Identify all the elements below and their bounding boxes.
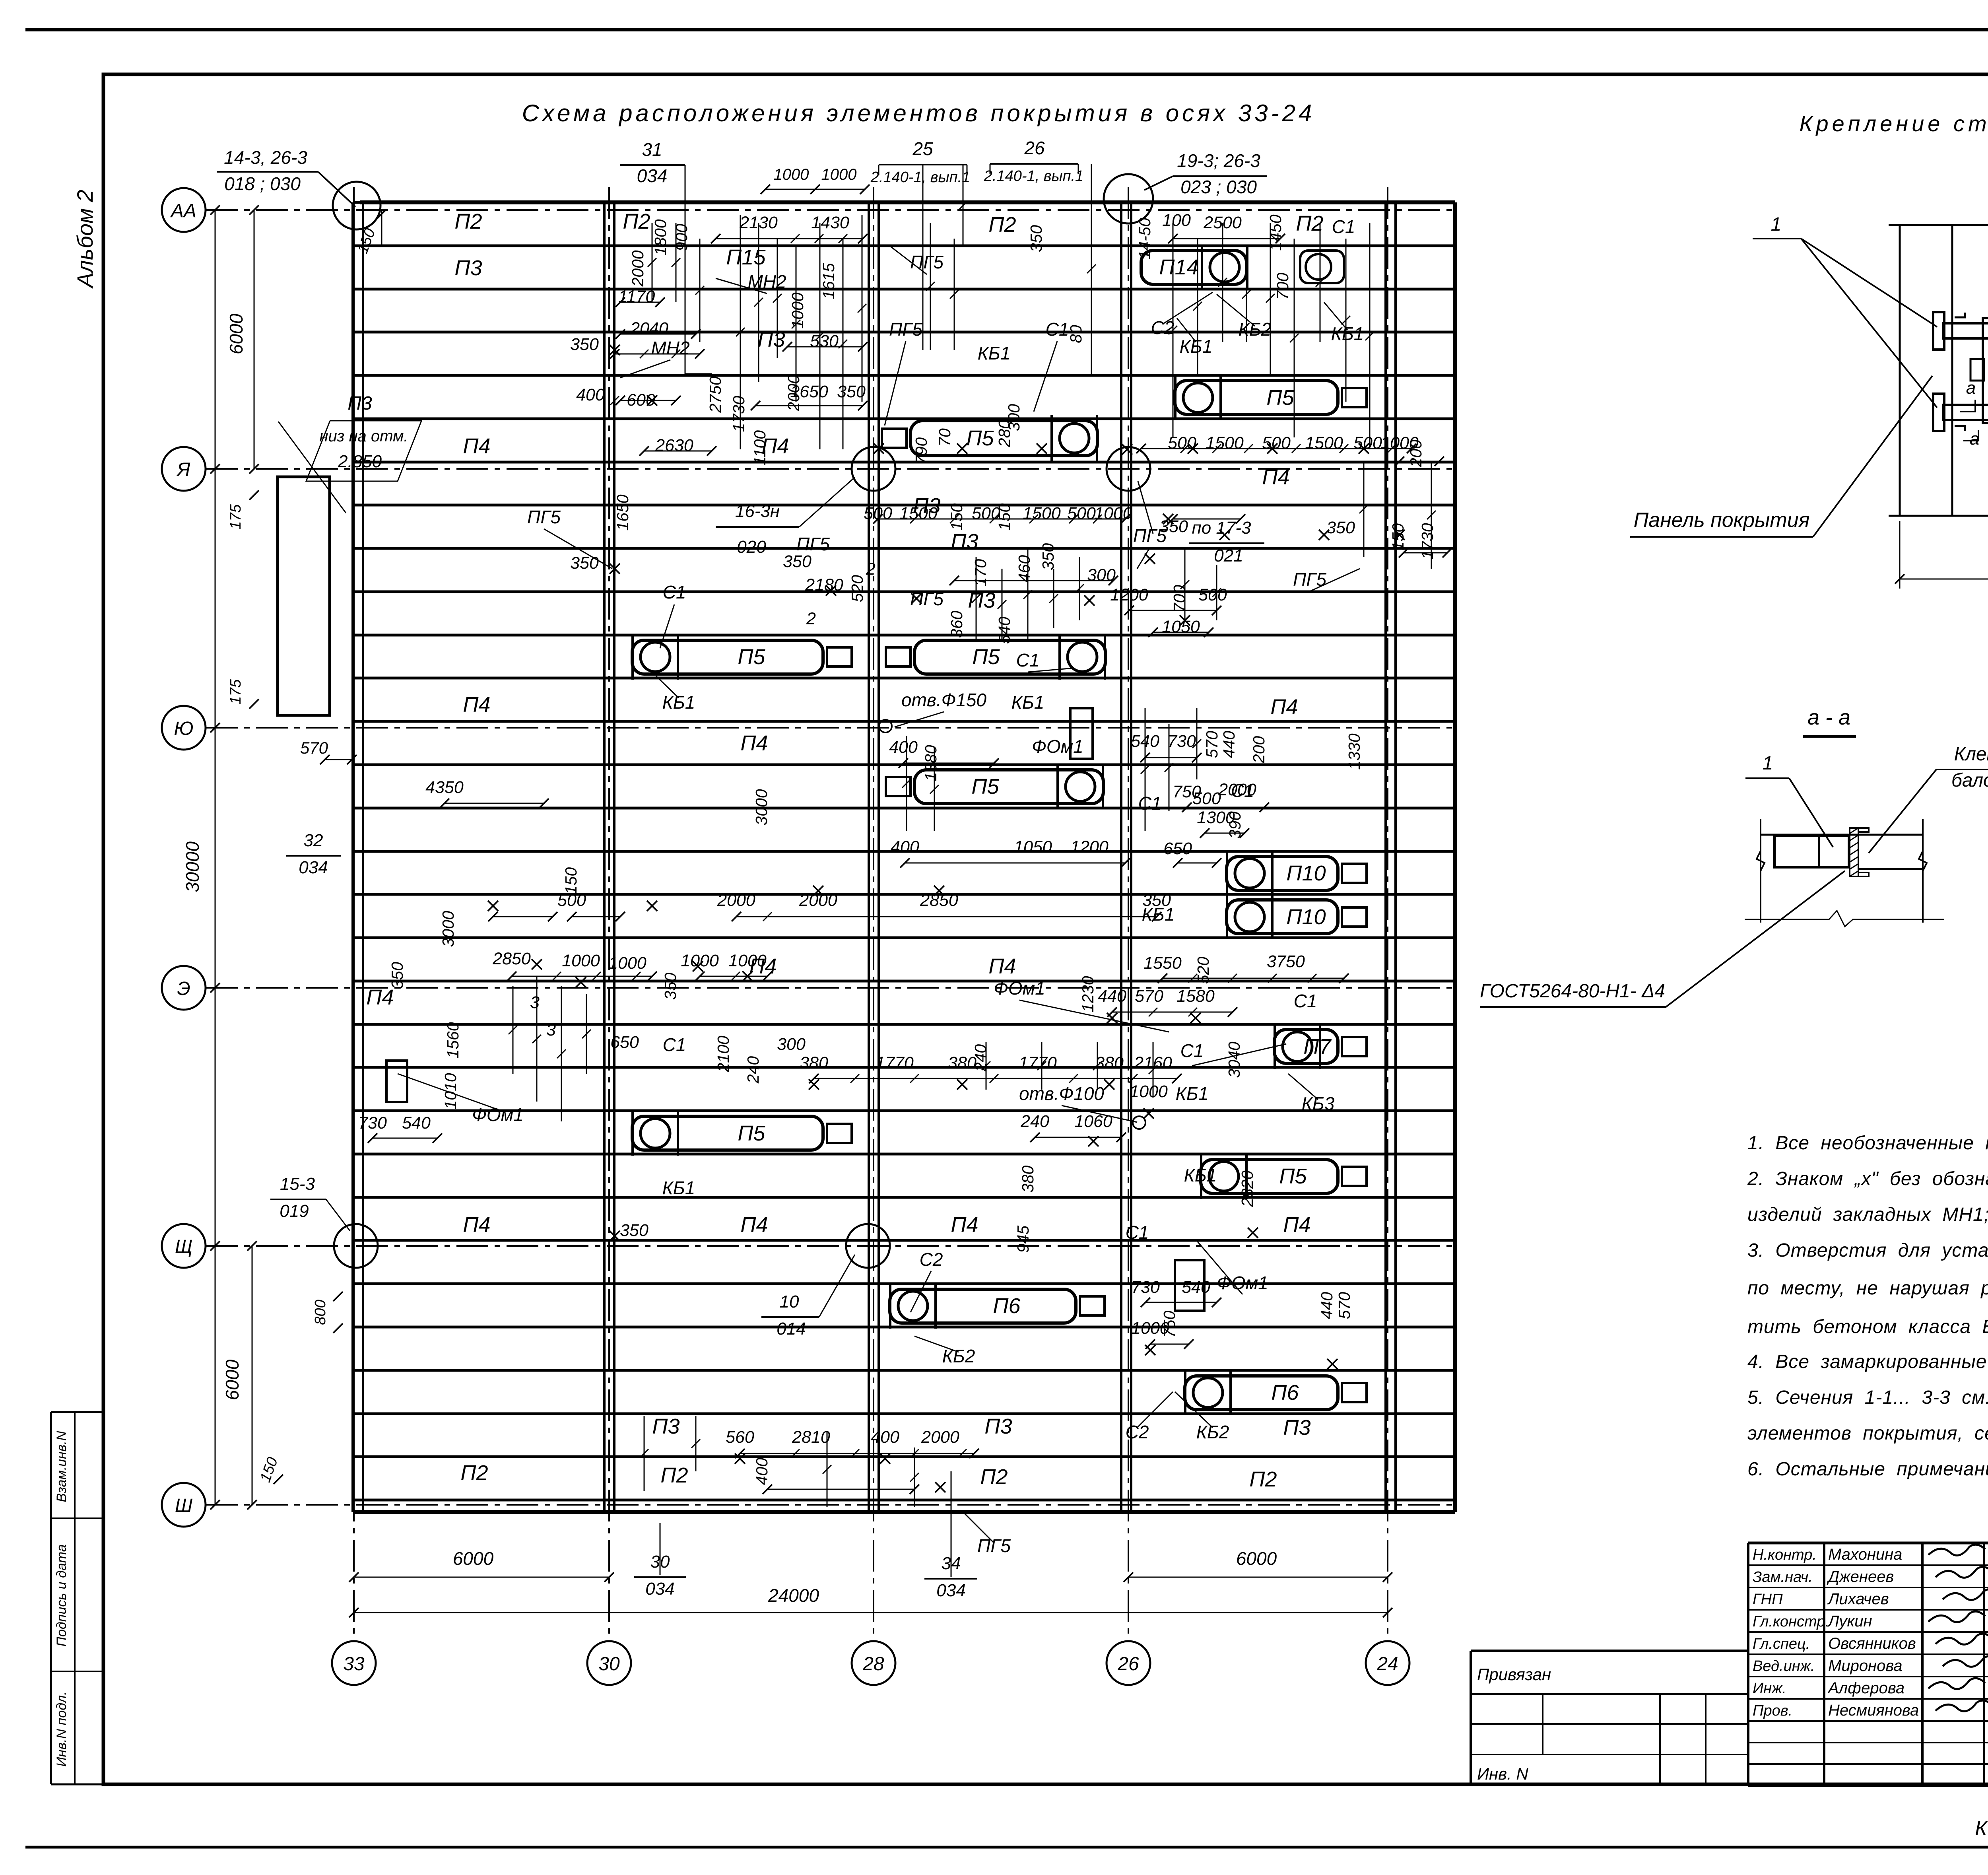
svg-text:Лукин: Лукин — [1827, 1613, 1872, 1630]
svg-text:Копировал Кухтинова: Копировал Кухтинова — [1975, 1817, 1988, 1840]
dim 1490 — [1899, 521, 1901, 589]
svg-text:Овсянников: Овсянников — [1828, 1635, 1916, 1652]
node circle at Я-28 — [852, 447, 895, 491]
svg-text:400: 400 — [891, 837, 919, 857]
bottom dim line 6000+6000 — [354, 1577, 609, 1578]
svg-text:отв.Ф100: отв.Ф100 — [1019, 1083, 1104, 1104]
panel П10 with cup — [1227, 857, 1338, 890]
svg-text:Крепление стакана к плите: Крепление стакана к плите покрытия — [1799, 111, 1988, 136]
panel П5 with cup — [914, 640, 1105, 674]
svg-text:1800: 1800 — [651, 219, 670, 255]
С1 cup rect at П14 row — [1300, 251, 1344, 283]
svg-text:1730: 1730 — [730, 396, 748, 432]
detail bottom edge with break — [1889, 505, 1988, 525]
left dimension line 30000 — [215, 210, 216, 1505]
svg-text:1450: 1450 — [1266, 214, 1285, 251]
svg-text:500: 500 — [1192, 789, 1221, 808]
svg-text:400: 400 — [753, 1458, 771, 1485]
svg-text:П4: П4 — [740, 731, 768, 755]
svg-text:Инв.N подл.: Инв.N подл. — [54, 1691, 69, 1766]
marker leader lines — [660, 604, 674, 648]
svg-text:28: 28 — [862, 1653, 884, 1675]
svg-text:730: 730 — [1167, 732, 1196, 751]
svg-text:1500: 1500 — [1206, 433, 1244, 453]
svg-text:П4: П4 — [463, 1213, 490, 1237]
column strip at axis 26 — [1120, 202, 1122, 1512]
svg-text:500: 500 — [1067, 504, 1096, 523]
svg-text:350: 350 — [661, 973, 679, 1000]
svg-text:2100: 2100 — [714, 1036, 732, 1072]
left attribute table — [51, 1411, 103, 1413]
svg-text:1560: 1560 — [444, 1022, 462, 1058]
svg-text:Клетка: Клетка — [1954, 744, 1988, 765]
svg-text:по месту, не нарушая ребер: по месту, не нарушая ребер плит и после … — [1747, 1278, 1988, 1299]
svg-text:350: 350 — [388, 962, 406, 989]
svg-text:023 ; 030: 023 ; 030 — [1180, 177, 1257, 197]
svg-text:П5: П5 — [1279, 1164, 1307, 1188]
svg-text:70: 70 — [936, 428, 954, 447]
svg-text:Несмиянова: Несмиянова — [1828, 1702, 1919, 1719]
svg-text:П5: П5 — [738, 645, 765, 669]
svg-text:ПГ5: ПГ5 — [910, 252, 944, 272]
svg-text:П3: П3 — [454, 256, 482, 280]
dim 150 top-left — [381, 210, 382, 247]
svg-text:2. Знаком „х" без обозначения: 2. Знаком „х" без обозначения на схемах … — [1747, 1168, 1988, 1189]
panel П5 with cup — [632, 1116, 823, 1150]
svg-text:1500: 1500 — [899, 504, 938, 523]
svg-text:низ на отм.: низ на отм. — [320, 427, 408, 445]
svg-text:2.850: 2.850 — [338, 452, 382, 471]
svg-text:650: 650 — [1163, 839, 1192, 858]
svg-text:1430: 1430 — [811, 213, 849, 232]
corner angle marks — [1955, 313, 1965, 317]
svg-text:500: 500 — [1198, 585, 1227, 604]
svg-text:КБ1: КБ1 — [1176, 1083, 1209, 1104]
panel П6 with cup — [1185, 1376, 1338, 1410]
svg-text:021: 021 — [1214, 546, 1243, 565]
svg-text:1000: 1000 — [774, 166, 809, 183]
svg-text:2180: 2180 — [805, 575, 843, 595]
svg-text:2850: 2850 — [492, 949, 531, 968]
svg-text:П10: П10 — [1286, 905, 1326, 929]
svg-text:018 ; 030: 018 ; 030 — [224, 173, 301, 194]
svg-text:034: 034 — [637, 165, 668, 186]
svg-text:П15: П15 — [726, 245, 766, 269]
bottom dim line 24000 — [354, 1612, 1388, 1613]
svg-text:2: 2 — [806, 609, 816, 628]
svg-text:КБ1: КБ1 — [1011, 692, 1044, 713]
svg-text:380: 380 — [1019, 1166, 1037, 1193]
axis line 24 — [1387, 187, 1388, 1639]
node circle at Я-26 — [1107, 447, 1150, 491]
svg-text:3000: 3000 — [752, 789, 771, 825]
svg-text:350: 350 — [1142, 891, 1171, 910]
svg-text:4350: 4350 — [425, 778, 464, 797]
svg-text:Ш: Ш — [175, 1495, 193, 1516]
svg-text:350: 350 — [570, 554, 599, 573]
svg-text:С1: С1 — [663, 582, 686, 602]
svg-text:540: 540 — [1182, 1278, 1210, 1297]
svg-text:Инж.: Инж. — [1753, 1680, 1786, 1697]
svg-text:2000: 2000 — [717, 891, 755, 910]
svg-text:Н.контр.: Н.контр. — [1753, 1547, 1817, 1563]
svg-text:14-3, 26-3: 14-3, 26-3 — [224, 147, 307, 168]
dim 570 — [325, 759, 352, 760]
left dimension 6000 Щ-Ш — [252, 1246, 253, 1505]
svg-text:350: 350 — [783, 552, 812, 571]
dim 1000 1000 top — [765, 189, 865, 190]
svg-text:400: 400 — [576, 385, 605, 404]
dimension chain lines — [615, 354, 700, 355]
svg-text:1000: 1000 — [821, 166, 857, 183]
svg-text:КБ1: КБ1 — [1180, 336, 1213, 357]
svg-text:ФОм1: ФОм1 — [472, 1104, 523, 1125]
plan top edge thick — [360, 200, 1455, 204]
svg-text:280: 280 — [995, 420, 1013, 448]
svg-text:элементов покрытия, сечение: элементов покрытия, сечение 4-4 и фундам… — [1747, 1423, 1988, 1444]
svg-text:С2: С2 — [1151, 317, 1175, 338]
svg-text:1500: 1500 — [1305, 433, 1343, 453]
section dim line — [1745, 911, 1944, 927]
svg-text:ФОм1: ФОм1 — [994, 978, 1045, 999]
svg-text:700: 700 — [1274, 273, 1292, 300]
axis circle 33 — [332, 1641, 376, 1685]
extra tick marks on chains — [610, 396, 619, 405]
svg-text:500: 500 — [1353, 433, 1382, 453]
svg-text:изделий закладных МН1; знак: изделий закладных МН1; знаком „•" - МН3;… — [1747, 1204, 1988, 1225]
svg-text:750: 750 — [1160, 1311, 1178, 1338]
column strip at axis 30 — [603, 202, 606, 1512]
svg-text:Алферова: Алферова — [1827, 1679, 1905, 1697]
svg-text:Махонина: Махонина — [1828, 1546, 1902, 1563]
panel П5 with cup — [1175, 381, 1338, 414]
svg-text:П4: П4 — [740, 1213, 768, 1237]
svg-text:ГОСТ5264-80-Н1- Δ4: ГОСТ5264-80-Н1- Δ4 — [1480, 981, 1665, 1002]
svg-text:П4: П4 — [1283, 1213, 1310, 1237]
axis line Щ — [206, 1245, 1455, 1247]
svg-text:Вед.инж.: Вед.инж. — [1753, 1658, 1815, 1675]
panel П3 (low at level 2.850) — [278, 477, 330, 715]
svg-text:2040: 2040 — [630, 319, 668, 338]
svg-text:балочная: балочная — [1951, 770, 1988, 791]
svg-text:ПГ5: ПГ5 — [1293, 569, 1326, 590]
svg-text:32: 32 — [304, 831, 323, 850]
svg-text:КБ3: КБ3 — [1302, 1093, 1335, 1114]
svg-text:П2: П2 — [460, 1461, 488, 1485]
svg-text:100: 100 — [1162, 211, 1191, 230]
svg-text:КБ1: КБ1 — [978, 343, 1011, 363]
svg-text:а - а: а - а — [1807, 705, 1850, 729]
svg-text:Гл.спец.: Гл.спец. — [1753, 1636, 1810, 1652]
svg-text:440: 440 — [1318, 1292, 1336, 1319]
svg-text:150: 150 — [562, 867, 580, 895]
vertical straps — [1983, 318, 1988, 423]
svg-text:1000: 1000 — [1094, 504, 1132, 523]
svg-text:2000: 2000 — [629, 250, 647, 287]
svg-text:Панель покрытия: Панель покрытия — [1634, 509, 1810, 532]
svg-text:350: 350 — [1326, 518, 1355, 537]
svg-text:П4: П4 — [988, 954, 1016, 978]
svg-text:730: 730 — [1131, 1278, 1160, 1297]
svg-text:30: 30 — [598, 1653, 620, 1675]
svg-text:3: 3 — [530, 993, 540, 1012]
svg-text:520: 520 — [1194, 957, 1212, 984]
svg-text:6000: 6000 — [226, 313, 247, 354]
svg-text:945: 945 — [1014, 1226, 1032, 1253]
svg-text:С1: С1 — [1332, 216, 1355, 237]
svg-text:26: 26 — [1117, 1653, 1139, 1675]
svg-text:Инв. N: Инв. N — [1477, 1764, 1528, 1783]
svg-text:200: 200 — [1250, 736, 1268, 764]
svg-text:80: 80 — [1067, 325, 1085, 343]
svg-text:тить бетоном класса В15.: тить бетоном класса В15. — [1747, 1316, 1988, 1337]
svg-text:П6: П6 — [1271, 1381, 1299, 1405]
svg-text:отв.Ф150: отв.Ф150 — [901, 690, 986, 710]
svg-text:С1: С1 — [1016, 650, 1040, 670]
svg-text:1100: 1100 — [751, 430, 769, 465]
svg-text:Щ: Щ — [175, 1236, 192, 1257]
svg-text:700: 700 — [1170, 585, 1188, 612]
svg-text:1200: 1200 — [1070, 837, 1109, 857]
svg-text:П3: П3 — [757, 328, 785, 352]
svg-text:19-3; 26-3: 19-3; 26-3 — [1177, 150, 1260, 171]
svg-text:440: 440 — [1098, 987, 1126, 1006]
svg-text:Лихачев: Лихачев — [1827, 1590, 1889, 1608]
svg-text:900: 900 — [672, 224, 691, 251]
svg-text:П10: П10 — [1286, 861, 1326, 885]
svg-text:1770: 1770 — [876, 1053, 914, 1073]
svg-text:П2: П2 — [1296, 212, 1323, 235]
axis line 26 — [1128, 187, 1129, 1639]
svg-text:П3: П3 — [652, 1415, 679, 1438]
svg-text:350: 350 — [1027, 225, 1045, 253]
svg-text:25: 25 — [912, 138, 933, 159]
svg-text:019: 019 — [280, 1201, 309, 1221]
svg-text:1000: 1000 — [1130, 1082, 1168, 1101]
lugs — [1971, 359, 1984, 381]
svg-text:570: 570 — [1335, 1292, 1353, 1319]
svg-text:034: 034 — [645, 1579, 674, 1599]
axis circle 24 — [1366, 1641, 1409, 1685]
svg-text:650: 650 — [610, 1033, 639, 1052]
node circle at АА-26 — [1104, 174, 1153, 223]
svg-text:П2: П2 — [1249, 1467, 1277, 1491]
small hole circles — [879, 720, 892, 733]
svg-text:1. Все необозначенные на: 1. Все необозначенные на схемах плиты по… — [1747, 1133, 1988, 1154]
svg-text:390: 390 — [1226, 812, 1244, 839]
svg-text:1000: 1000 — [728, 951, 767, 970]
svg-text:6000: 6000 — [1236, 1548, 1277, 1569]
svg-text:П5: П5 — [971, 775, 999, 799]
svg-text:П5: П5 — [738, 1121, 765, 1145]
plan panel row lines — [354, 201, 1455, 204]
svg-text:П5: П5 — [1266, 386, 1294, 410]
beam bottom — [1943, 405, 1988, 420]
vertical dimension clusters top-middle — [740, 215, 741, 449]
svg-text:400: 400 — [871, 1428, 899, 1447]
svg-text:570: 570 — [300, 738, 328, 757]
column strip at axis 33 (left edge) — [351, 202, 355, 1512]
svg-text:150: 150 — [995, 503, 1013, 531]
svg-text:ПГ5: ПГ5 — [889, 319, 922, 340]
dim 175 above Ю — [249, 699, 259, 709]
svg-text:540: 540 — [402, 1113, 431, 1133]
axis line 28 — [873, 187, 874, 1639]
svg-text:С1: С1 — [1294, 991, 1317, 1011]
svg-text:2850: 2850 — [920, 891, 958, 910]
svg-text:1010: 1010 — [441, 1073, 460, 1109]
svg-text:П4: П4 — [1270, 695, 1298, 719]
svg-text:КБ2: КБ2 — [1239, 319, 1272, 340]
axis circle 26 — [1107, 1641, 1150, 1685]
svg-text:3. Отверстия для установки: 3. Отверстия для установки МН1... МН4 и … — [1747, 1240, 1988, 1261]
svg-text:П5: П5 — [972, 645, 1000, 669]
axis line Э — [206, 987, 1455, 989]
svg-text:2750: 2750 — [706, 376, 724, 413]
svg-text:П3: П3 — [968, 589, 995, 612]
svg-text:300: 300 — [777, 1035, 806, 1054]
column strip at axis 24 — [1384, 202, 1387, 1512]
svg-text:034: 034 — [936, 1581, 965, 1600]
svg-text:КБ2: КБ2 — [1196, 1422, 1229, 1442]
svg-text:П4: П4 — [463, 434, 490, 458]
svg-text:400: 400 — [889, 738, 918, 757]
svg-text:ПГ5: ПГ5 — [527, 507, 561, 527]
dim 150 bottom-left — [274, 1475, 283, 1484]
svg-text:460: 460 — [1015, 555, 1033, 583]
svg-text:ПГ5: ПГ5 — [977, 1535, 1011, 1556]
panel П10 with cup — [1227, 900, 1338, 934]
axis circle Э — [162, 966, 206, 1010]
svg-text:3: 3 — [546, 1020, 556, 1040]
svg-text:1330: 1330 — [1345, 733, 1363, 769]
svg-text:П2: П2 — [980, 1465, 1008, 1489]
svg-text:С2: С2 — [920, 1249, 943, 1270]
axis circle Ш — [162, 1483, 206, 1527]
svg-text:МН2: МН2 — [651, 338, 689, 358]
axis circle Я — [162, 447, 206, 491]
svg-text:500: 500 — [1262, 433, 1291, 453]
embed marker crosses — [610, 345, 620, 355]
svg-text:034: 034 — [299, 858, 328, 877]
svg-text:170: 170 — [971, 559, 990, 587]
svg-text:1500: 1500 — [1023, 504, 1061, 523]
svg-text:2.140-1, вып.1: 2.140-1, вып.1 — [984, 168, 1083, 185]
svg-text:570: 570 — [1135, 987, 1163, 1006]
svg-text:1200: 1200 — [1110, 585, 1148, 604]
svg-text:350: 350 — [570, 335, 599, 354]
svg-text:800: 800 — [312, 1300, 329, 1325]
svg-text:Зам.нач.: Зам.нач. — [1753, 1569, 1813, 1585]
svg-text:1050: 1050 — [1014, 837, 1052, 857]
svg-text:П2: П2 — [454, 210, 482, 233]
svg-text:1170: 1170 — [618, 287, 655, 306]
panel П5 with cup — [1201, 1160, 1338, 1193]
svg-text:П4: П4 — [1262, 465, 1289, 489]
svg-text:Пров.: Пров. — [1753, 1702, 1792, 1719]
svg-text:2810: 2810 — [792, 1428, 830, 1447]
svg-text:020: 020 — [737, 537, 766, 557]
svg-text:1000: 1000 — [562, 951, 600, 970]
svg-text:Э: Э — [177, 978, 190, 999]
svg-text:560: 560 — [726, 1428, 754, 1447]
sheet top edge line — [25, 28, 1988, 31]
section detail drawing — [1760, 819, 1761, 923]
svg-text:1615: 1615 — [819, 263, 838, 299]
plan right edge — [1453, 202, 1457, 1512]
svg-text:П2: П2 — [623, 210, 650, 233]
plan bottom edge — [354, 1510, 1455, 1514]
panel П7 with cup — [1274, 1030, 1338, 1063]
svg-text:3000: 3000 — [439, 911, 457, 947]
svg-text:1060: 1060 — [1074, 1112, 1112, 1131]
svg-text:П6: П6 — [993, 1294, 1021, 1318]
detail top edge with break — [1889, 215, 1988, 235]
svg-text:КБ1: КБ1 — [662, 692, 695, 713]
svg-text:520: 520 — [848, 575, 866, 602]
svg-text:1230: 1230 — [1079, 976, 1097, 1012]
svg-text:350: 350 — [620, 1221, 648, 1240]
svg-text:350: 350 — [1159, 517, 1188, 536]
svg-text:240: 240 — [744, 1056, 762, 1084]
svg-text:Взам.инв.N: Взам.инв.N — [54, 1431, 69, 1502]
svg-text:П3: П3 — [951, 530, 978, 554]
svg-text:С1: С1 — [1046, 319, 1069, 340]
svg-text:а: а — [1966, 378, 1976, 398]
axis line 33 — [353, 187, 355, 1639]
axis line Ю — [206, 727, 1455, 729]
svg-text:5. Сечения 1-1... 3-3 см. лис: 5. Сечения 1-1... 3-3 см. лист 18, специ… — [1747, 1387, 1988, 1408]
svg-text:30000: 30000 — [182, 841, 203, 892]
svg-text:2630: 2630 — [655, 436, 693, 455]
svg-text:ПГ5: ПГ5 — [796, 534, 830, 554]
svg-text:500: 500 — [864, 504, 892, 523]
svg-text:240: 240 — [1020, 1112, 1049, 1131]
node circle at Щ-28 — [846, 1224, 890, 1268]
svg-text:КБ1: КБ1 — [1331, 323, 1364, 344]
svg-text:24000: 24000 — [768, 1585, 819, 1606]
svg-text:П3: П3 — [984, 1415, 1012, 1438]
node circle at Щ-33 — [334, 1224, 378, 1268]
svg-text:Альбом 2: Альбом 2 — [72, 190, 97, 289]
svg-text:Ю: Ю — [174, 718, 193, 739]
svg-text:1580: 1580 — [1176, 987, 1215, 1006]
small foundation rects ФОм1 — [386, 1061, 407, 1102]
axis circle Ю — [162, 706, 206, 750]
detail panel verticals — [1899, 225, 1901, 516]
axis line Ш — [206, 1504, 1455, 1506]
panel П5 with cup — [632, 640, 823, 674]
svg-text:1: 1 — [1763, 753, 1773, 774]
dim 175 under Я — [249, 490, 259, 500]
section break marks — [1757, 851, 1765, 871]
node circle at АА-33 — [333, 182, 381, 229]
svg-text:П3: П3 — [348, 393, 372, 414]
svg-text:С1: С1 — [1180, 1040, 1204, 1061]
svg-text:10: 10 — [780, 1292, 799, 1312]
svg-text:570: 570 — [1203, 731, 1221, 758]
svg-text:КБ1: КБ1 — [662, 1177, 695, 1198]
svg-text:1650: 1650 — [613, 494, 632, 530]
svg-text:2000: 2000 — [1218, 780, 1256, 799]
svg-text:Схема расположения элементов: Схема расположения элементов покрытия в … — [522, 100, 1315, 126]
svg-text:ГНП: ГНП — [1753, 1591, 1783, 1608]
svg-text:350: 350 — [1039, 543, 1057, 571]
svg-text:6000: 6000 — [222, 1359, 243, 1400]
svg-text:П5: П5 — [966, 426, 994, 450]
svg-text:С1: С1 — [663, 1034, 686, 1055]
axis line 30 — [608, 187, 610, 1639]
